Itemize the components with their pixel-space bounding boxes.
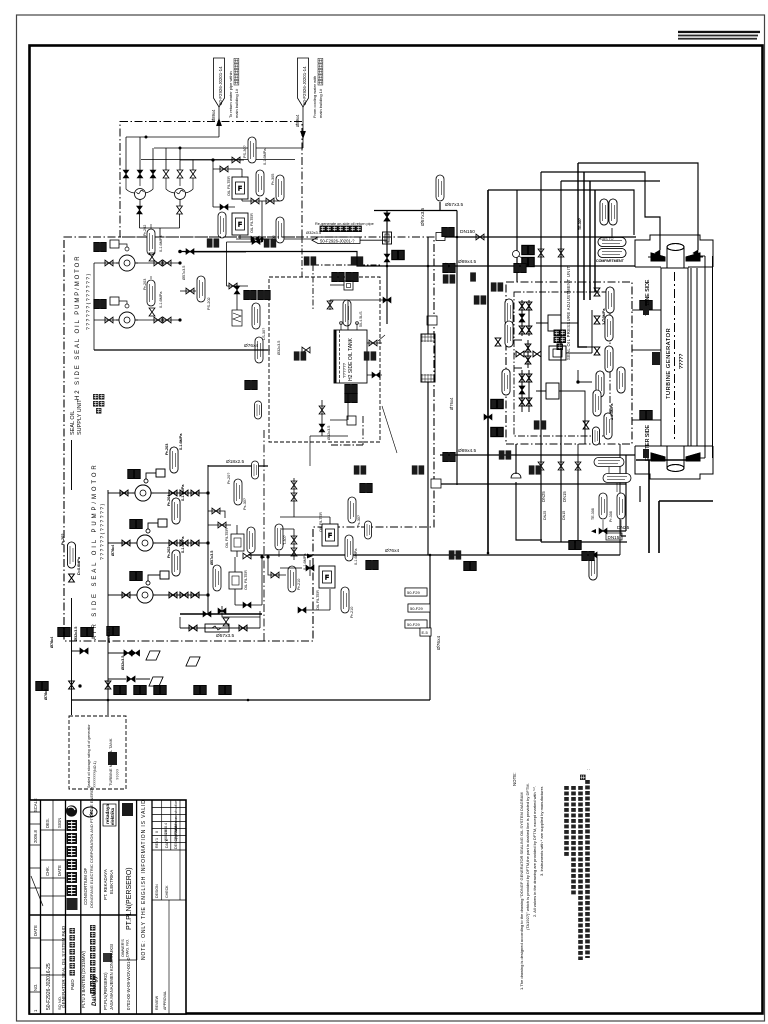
svg-text:0-1.6MPa: 0-1.6MPa [159, 235, 163, 252]
svg-text:50-F2926-J0201-?: 50-F2926-J0201-? [320, 239, 355, 244]
svg-text:SEAL OIL: SEAL OIL [70, 411, 76, 435]
svg-text:DESIGN: DESIGN [155, 884, 159, 898]
svg-text:PT. REKADAYA: PT. REKADAYA [103, 869, 108, 900]
svg-text:OWNER'S: OWNER'S [121, 939, 125, 957]
svg-text:Pr-202: Pr-202 [167, 547, 171, 558]
svg-text:LS-30?: LS-30? [262, 328, 266, 340]
svg-text:Dallenergy: Dallenergy [92, 975, 98, 1006]
svg-text:Ø89x4: Ø89x4 [295, 114, 300, 127]
svg-text:OIL FILTER: OIL FILTER [250, 213, 254, 233]
svg-text:OIL FILTER: OIL FILTER [319, 512, 323, 532]
svg-text:?????: ????? [679, 354, 685, 369]
svg-text:H2 SIDE SEAL OIL PUMP/MOTOR: H2 SIDE SEAL OIL PUMP/MOTOR [75, 255, 81, 400]
svg-text:elektrika: elektrika [110, 807, 115, 825]
svg-text:SEAL OIL PRESSURE ADJUSTMENT U: SEAL OIL PRESSURE ADJUSTMENT UNIT [566, 266, 571, 360]
svg-text:3-0.6MPa: 3-0.6MPa [602, 308, 606, 325]
svg-text:CONSORTIUM OF: CONSORTIUM OF [83, 867, 88, 905]
svg-text:DN15: DN15 [562, 491, 567, 502]
svg-text:Ø76x4: Ø76x4 [44, 689, 48, 700]
svg-text:Re-generate on-side oil return: Re-generate on-side oil return pipe [315, 222, 374, 226]
svg-text:0: 0 [155, 831, 159, 833]
svg-text:E-5: E-5 [422, 630, 429, 635]
svg-text:Ø89x4.5: Ø89x4.5 [107, 629, 111, 643]
svg-text:SIGN: SIGN [57, 818, 62, 828]
svg-text:DONGFANG ELECTRIC CORPORATION: DONGFANG ELECTRIC CORPORATION AND PT DAL… [89, 786, 94, 908]
svg-text:50-4.5L/S: 50-4.5L/S [359, 311, 363, 327]
svg-text:PS-202: PS-202 [207, 297, 211, 310]
svg-text:DATE: DATE [33, 925, 38, 936]
svg-text:Ø32x3.5: Ø32x3.5 [121, 656, 125, 670]
svg-text:From cooling water with: From cooling water with [312, 76, 317, 118]
svg-text:Pr-20?: Pr-20? [61, 534, 65, 545]
svg-text:GENERATOR SEAL OIL SYSTEM P&ID: GENERATOR SEAL OIL SYSTEM P&ID [61, 925, 66, 1008]
svg-text:Ø89x4.5: Ø89x4.5 [458, 448, 476, 454]
svg-text:Ø57x3.5: Ø57x3.5 [182, 266, 186, 280]
svg-text:OIL FILTER: OIL FILTER [244, 570, 248, 590]
svg-text:Ø76x4: Ø76x4 [436, 636, 442, 650]
svg-text:Ø32x3.5: Ø32x3.5 [306, 230, 322, 235]
svg-text:0-1.6MPa: 0-1.6MPa [263, 148, 267, 165]
svg-text:0-1.6MPa: 0-1.6MPa [159, 291, 163, 308]
svg-text:2008.4: 2008.4 [164, 823, 168, 834]
svg-text:(TA1927)" which is provided by: (TA1927)" which is provided by DFTM,the … [525, 783, 530, 930]
svg-text:Ø89x4: Ø89x4 [211, 109, 216, 122]
svg-text:Pr-203: Pr-203 [165, 444, 169, 455]
svg-text:GAS TO: GAS TO [600, 237, 614, 241]
svg-text:Ø32x3.5: Ø32x3.5 [327, 426, 331, 440]
svg-text:1.The drawing is designed acco: 1.The drawing is designed according to t… [519, 792, 524, 990]
svg-text:Ø57x3.5: Ø57x3.5 [210, 551, 214, 565]
svg-text:DN15: DN15 [562, 511, 566, 520]
svg-text:??????: ?????? [342, 362, 347, 378]
svg-text:DN25: DN25 [541, 491, 546, 502]
svg-text:Ø18x2.5: Ø18x2.5 [226, 459, 244, 465]
svg-text:Ø76x4: Ø76x4 [244, 343, 258, 349]
svg-text:APPROVAL: APPROVAL [163, 991, 167, 1010]
svg-text:D=0.6MPa: D=0.6MPa [77, 556, 81, 575]
svg-text:H2 SIDE OIL TANK: H2 SIDE OIL TANK [348, 337, 354, 381]
svg-text:TURBINE GENERATOR: TURBINE GENERATOR [666, 328, 672, 399]
svg-text:To return water pipe within: To return water pipe within [228, 71, 233, 118]
svg-text:DWG. NO.: DWG. NO. [126, 939, 130, 957]
svg-text:Pr-202: Pr-202 [143, 225, 147, 236]
svg-text:PT.PLN(PERSERO): PT.PLN(PERSERO) [103, 972, 108, 1010]
svg-text:OIL FILTER: OIL FILTER [316, 590, 320, 610]
svg-text:Ø76x4: Ø76x4 [385, 548, 399, 554]
svg-text:Pr-210: Pr-210 [297, 579, 301, 590]
svg-text:50-F29: 50-F29 [410, 606, 423, 611]
svg-text:Ps-30?: Ps-30? [357, 515, 361, 527]
svg-text:CHK.: CHK. [45, 866, 50, 876]
svg-text:P&ID: P&ID [70, 979, 75, 990]
svg-text:50-F29: 50-F29 [407, 622, 420, 627]
svg-text:3. Instruments with * are supp: 3. Instruments with * are supplied by ma… [539, 786, 544, 876]
svg-text::: : [586, 769, 592, 770]
svg-text:DN25: DN25 [617, 525, 630, 531]
svg-text:PLTU 3 BANTEN (2X315MW): PLTU 3 BANTEN (2X315MW) [81, 950, 86, 1008]
svg-text:2006.8: 2006.8 [33, 830, 38, 843]
svg-text:TE-30?: TE-30? [578, 218, 582, 230]
svg-text:DATE: DATE [57, 865, 62, 876]
svg-text:main building 1#: main building 1# [318, 88, 323, 118]
svg-text:Ø57x3.5: Ø57x3.5 [216, 633, 234, 639]
svg-text:T-30?: T-30? [283, 535, 287, 545]
svg-text:Ø32x3.5: Ø32x3.5 [277, 341, 281, 355]
svg-text:JASA MANAJEMEN KONSTRUKSI: JASA MANAJEMEN KONSTRUKSI [109, 944, 114, 1010]
svg-text:2. All valves in the drawing a: 2. All valves in the drawing are provide… [532, 786, 537, 917]
svg-text:Ps-30?: Ps-30? [243, 498, 247, 510]
svg-text:Ø32x3.5: Ø32x3.5 [74, 627, 78, 641]
svg-text:ELEKTRIKA: ELEKTRIKA [109, 870, 114, 894]
svg-text:0-1.6MPa: 0-1.6MPa [354, 548, 358, 565]
svg-text:OIL FILTER: OIL FILTER [227, 176, 231, 196]
svg-text:NOTE: ONLY THE ENGLISH INFORMA: NOTE: ONLY THE ENGLISH INFORMATION IS VA… [141, 799, 147, 960]
svg-text:DN150: DN150 [460, 229, 475, 235]
svg-text:DES.: DES. [45, 818, 50, 828]
svg-text:Pr-305: Pr-305 [271, 174, 275, 185]
svg-text:COMPARTMENT: COMPARTMENT [596, 259, 625, 263]
svg-text:1: 1 [155, 838, 159, 840]
svg-text:CHECK: CHECK [165, 885, 169, 898]
svg-text:PT.PLN(PERSERO): PT.PLN(PERSERO) [126, 867, 133, 930]
svg-text:NOTE:: NOTE: [512, 773, 517, 786]
svg-text:????????(NO.1): ????????(NO.1) [93, 761, 97, 788]
svg-text:0-1.6MPa: 0-1.6MPa [181, 484, 185, 501]
svg-text:Ø57x3.5: Ø57x3.5 [445, 202, 463, 208]
svg-text:main building 1#: main building 1# [234, 88, 239, 118]
svg-text:Pr-20?: Pr-20? [227, 473, 231, 484]
svg-text:Pr-210: Pr-210 [350, 607, 354, 618]
svg-text:REV: REV [155, 840, 159, 848]
svg-text:DN15: DN15 [608, 535, 620, 540]
svg-text:Ø57x3.5: Ø57x3.5 [420, 208, 426, 226]
svg-text:Sealed oil storage rating oil: Sealed oil storage rating oil of generat… [87, 723, 91, 788]
svg-text:??????(??????): ??????(??????) [100, 502, 106, 560]
svg-text:PS-30?: PS-30? [243, 145, 247, 158]
svg-text:3-0.6MPa: 3-0.6MPa [610, 403, 614, 420]
svg-text:Ø89x4.5: Ø89x4.5 [458, 259, 476, 265]
svg-text:?????: ????? [115, 768, 120, 780]
svg-text:??????(??????): ??????(??????) [86, 272, 92, 330]
svg-text:DN25: DN25 [543, 511, 547, 520]
svg-text:SUPPLY UNIT: SUPPLY UNIT [77, 399, 83, 435]
svg-text:0702-00-W-09-WOV-001-0: 0702-00-W-09-WOV-001-0 [126, 957, 131, 1010]
svg-text:50-F29: 50-F29 [407, 590, 420, 595]
svg-text:50-F2926-J02016-25: 50-F2926-J02016-25 [46, 963, 52, 1010]
svg-text:Pr-204: Pr-204 [167, 495, 171, 506]
svg-text:Pr-308: Pr-308 [609, 511, 613, 522]
svg-text:50-F2926-J0201-14: 50-F2926-J0201-14 [218, 66, 223, 105]
svg-text:50-F2926-J0201-14: 50-F2926-J0201-14 [302, 66, 307, 105]
svg-text:OIL FILTER: OIL FILTER [225, 528, 229, 548]
svg-text:Ø76x4: Ø76x4 [449, 397, 454, 410]
svg-text:REVIEW: REVIEW [155, 995, 159, 1010]
svg-text:0-1.6MPa: 0-1.6MPa [179, 433, 183, 450]
svg-text:Ø76x4: Ø76x4 [111, 545, 115, 556]
svg-text:NO.: NO. [33, 984, 38, 991]
svg-text:1st version: 1st version [174, 817, 178, 834]
svg-text:SCALE: SCALE [33, 798, 38, 812]
svg-text:TE-308: TE-308 [591, 508, 595, 520]
svg-text:Pr-203: Pr-203 [143, 279, 147, 290]
svg-text:Ø76x4: Ø76x4 [50, 637, 54, 648]
svg-text:0-1.6MPa: 0-1.6MPa [181, 536, 185, 553]
svg-text:AIR SIDE SEAL OIL PUMP/MOTOR: AIR SIDE SEAL OIL PUMP/MOTOR [92, 462, 98, 640]
